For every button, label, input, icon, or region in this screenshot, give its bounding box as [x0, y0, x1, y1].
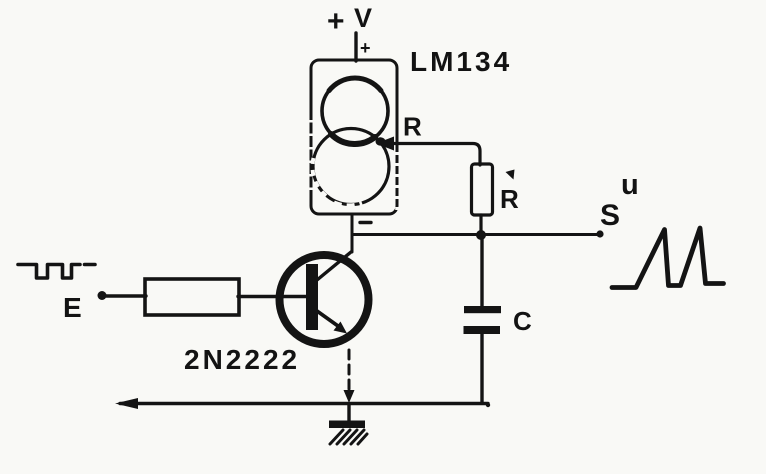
svg-text:u: u: [621, 169, 639, 201]
tick above R': [506, 170, 515, 180]
capacitor C1 plates: [464, 306, 501, 313]
top circle heavy arcs: [331, 134, 375, 144]
collector lead Q1: [317, 252, 351, 280]
minus label at box bottom: [360, 221, 371, 224]
resistor R1 (base resistor): [145, 279, 239, 315]
current source circle (bottom, part dashed): [313, 129, 389, 205]
wire +V to LM134 box: [354, 33, 357, 61]
svg-text:2N2222: 2N2222: [184, 344, 300, 375]
wire R2 to node: [479, 215, 482, 236]
square wave symbol: [18, 265, 95, 279]
emitter arrowhead to ground rail: [344, 390, 355, 403]
ground symbol bar: [329, 421, 365, 429]
current source circle (top): [322, 78, 388, 144]
node S terminal dot: [596, 230, 603, 237]
current source U1 LM134 box: [311, 60, 397, 214]
wire arrow to resistor R2: [390, 144, 480, 166]
emitter dashed wire: [348, 350, 351, 391]
wire box bottom through node to transistor collector: [351, 214, 354, 252]
ground stub: [347, 404, 350, 421]
transistor Q1 2N2222 circle: [280, 255, 369, 344]
arrowhead into current source: [376, 137, 394, 151]
input terminal dot E: [98, 291, 107, 300]
transistor base bar: [306, 264, 318, 330]
svg-text:LM134: LM134: [410, 46, 512, 77]
rail arrowhead left: [115, 398, 138, 409]
node line (output net): [352, 233, 600, 236]
svg-text:S: S: [600, 199, 620, 232]
capacitor C1 top wire: [480, 236, 483, 306]
base wire resistor to Q1: [238, 295, 306, 298]
node junction dot: [476, 230, 486, 240]
svg-text:+: +: [327, 5, 345, 38]
emitter lead with arrow: [317, 311, 338, 326]
box dashed-edge gaps: [311, 120, 397, 210]
sawtooth waveform: [612, 228, 724, 288]
input wire: [104, 294, 146, 297]
ground hatching: [330, 430, 367, 444]
svg-text:V: V: [354, 3, 372, 33]
resistor R2 (R'): [472, 164, 493, 215]
svg-text:+: +: [360, 38, 371, 58]
svg-text:C: C: [513, 306, 532, 336]
svg-text:R: R: [403, 112, 422, 142]
crossing blob: [376, 137, 386, 145]
svg-text:R: R: [500, 184, 519, 214]
ground rail wire: [120, 402, 488, 405]
svg-text:E: E: [63, 292, 82, 323]
capacitor bottom wire: [480, 334, 483, 403]
rail end dot: [486, 403, 490, 407]
